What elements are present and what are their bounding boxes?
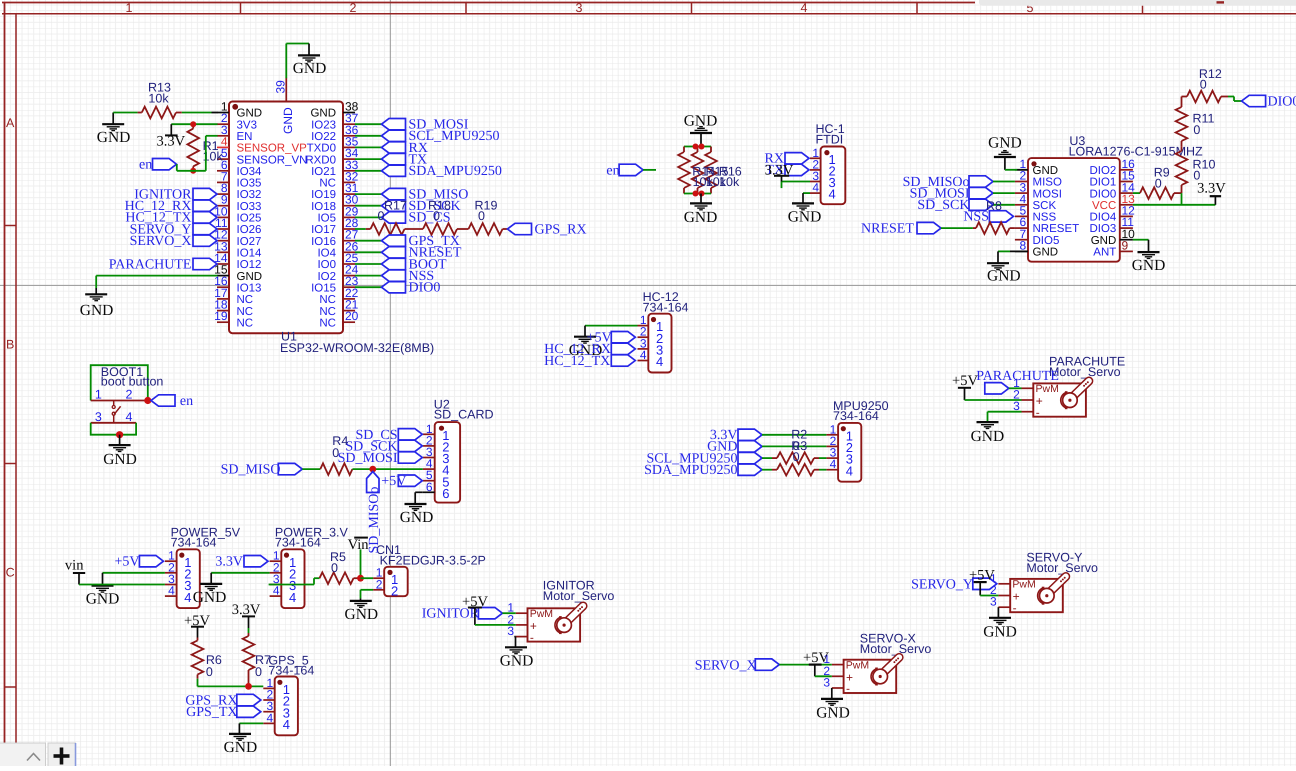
SERVO-X servo arm [881, 657, 899, 675]
U1 pin 24 (IO2) stub [343, 275, 355, 277]
svg-text:4: 4 [125, 410, 132, 424]
CN1 pin1 marker [387, 570, 392, 575]
svg-text:IO19: IO19 [311, 189, 336, 201]
U3 pin 1 (GND) stub [1015, 169, 1028, 171]
motor servo SERVO-Y body [1010, 579, 1063, 612]
svg-text:4: 4 [830, 457, 837, 471]
svg-text:MISO: MISO [1033, 177, 1062, 189]
U3 pin 15 (DIO1) stub [1120, 181, 1133, 183]
wire U3 pin8 to GND [998, 250, 1010, 252]
svg-text:DIO0: DIO0 [1268, 94, 1296, 109]
wire U1 right to SDA_MPU9250 [355, 170, 382, 172]
U1 pin 7 (IO35) stub [217, 181, 229, 183]
wire junction to CN1 pin1 [361, 577, 374, 579]
wire U1 right to SD_SCK [355, 205, 382, 207]
net flag SD_MISOo to U3 [969, 176, 993, 187]
motor servo SERVO-X body [844, 660, 897, 693]
wire R4 to U2 pin4 [352, 468, 422, 470]
junction dot R1 bottom [190, 168, 196, 174]
U1 pin 21 (NC) stub [343, 310, 355, 312]
wire PARACHUTE pin3 to GND [988, 411, 1022, 413]
bottom tab panel [0, 743, 46, 768]
U1 pin 30 (IO18) stub [343, 205, 355, 207]
wire SD_MOSI [993, 192, 1015, 194]
svg-text:GND: GND [816, 704, 850, 721]
U2 pin 3 stub [423, 457, 435, 459]
net flag PARACHUTE at U1 pin 14 [193, 258, 217, 269]
U2 pin 6 stub [423, 491, 435, 493]
wire GND to R13 [113, 112, 137, 114]
MPU9250 pin 3 stub [826, 457, 838, 459]
HC-1 pin1 marker [824, 150, 829, 155]
svg-text:GND: GND [293, 60, 327, 77]
POWER_5V pin 3 stub [165, 584, 177, 586]
svg-text:10k: 10k [148, 92, 169, 106]
net flag en at BOOT1 [151, 395, 175, 406]
ic U2 SD_CARD body [435, 422, 460, 503]
IGNITOR servo hub circle [557, 618, 572, 633]
svg-text:IO17: IO17 [311, 224, 336, 236]
svg-text:IO4: IO4 [317, 248, 336, 260]
SERVO-X pin 3 stub [832, 687, 844, 689]
svg-text:LORA1276-C1-915MHZ: LORA1276-C1-915MHZ [1069, 144, 1203, 158]
ground at HC-1 pin4 [803, 192, 810, 194]
wire MPU9250 pin2 [762, 445, 826, 447]
PARACHUTE servo arm dots [1087, 381, 1089, 383]
net flag NRESET [917, 222, 941, 233]
svg-text:39: 39 [274, 80, 288, 94]
U1 pin 17 (NC) stub [217, 298, 229, 300]
svg-text:NC: NC [319, 178, 336, 190]
POWER_3.V pin 1 stub [270, 560, 282, 562]
svg-text:19: 19 [214, 309, 228, 323]
svg-text:GND: GND [80, 302, 114, 319]
U1 pin 8 (IO32) stub [217, 193, 229, 195]
resistor R5 [320, 572, 354, 584]
net flag RX to HC-1 [785, 153, 809, 164]
svg-text:SCK: SCK [1033, 200, 1057, 212]
HC-1 pin 1 stub [810, 157, 821, 159]
wire POWER_3.V pin2 to GND [211, 572, 269, 574]
svg-text:SENSOR_VP: SENSOR_VP [237, 143, 308, 155]
wire SERVO-X pin3 to GND [831, 688, 833, 699]
U1 pin 9 (IO33) stub [217, 205, 229, 207]
net flag +5V to POWER_5V pin1 [139, 556, 163, 567]
junction dot R7 bottom [245, 683, 252, 690]
MPU9250 pin 2 stub [826, 445, 838, 447]
U1 pin 39 (GND) stub [285, 78, 287, 102]
U3 pin 7 (DIO5) stub [1015, 239, 1028, 241]
wire R9/R10 node to VCC rail [1181, 193, 1183, 205]
net flag BOOT [382, 258, 406, 269]
svg-text:4: 4 [289, 590, 296, 605]
net flag SD_CS to U2 pin 1 [398, 429, 422, 440]
svg-text:GND: GND [684, 209, 718, 226]
SERVO-Y pin 3 stub [998, 606, 1010, 608]
U2 pin 5 stub [423, 480, 435, 482]
wire U3 pin14 to R9 [1133, 192, 1140, 194]
svg-text:GND: GND [103, 451, 137, 468]
svg-text:DIO5: DIO5 [1033, 235, 1060, 247]
svg-text:NC: NC [237, 306, 254, 318]
svg-text:GND: GND [345, 606, 379, 623]
U1 pin 12 (IO27) stub [217, 240, 229, 242]
svg-text:C: C [6, 566, 15, 580]
wire flag to PARACHUTE pin1 [1009, 387, 1022, 389]
resistor R13 10k [138, 112, 142, 114]
svg-text:GND: GND [97, 129, 131, 146]
SERVO-Y pin 2 stub [998, 595, 1010, 597]
ground symbol at SERVO-Y [989, 617, 1011, 619]
svg-text:6: 6 [426, 480, 433, 494]
svg-text:4: 4 [283, 717, 290, 732]
connector MPU9250 body [838, 423, 861, 482]
wire U1 right to SD_MISO [355, 193, 382, 195]
U1 pin 11 (IO26) stub [217, 228, 229, 230]
wire HC-12 pin1 to GND [585, 325, 638, 327]
svg-text:4: 4 [640, 348, 647, 362]
motor servo PARACHUTE body [1033, 383, 1086, 416]
net flag HC_12_TX at U1 pin 10 [193, 212, 217, 223]
ground symbol below R14 network [700, 194, 702, 204]
svg-text:+5V: +5V [803, 650, 829, 666]
junction dots top rail [693, 144, 699, 150]
svg-text:FTDI: FTDI [816, 132, 844, 146]
U3 pin 5 (NSS) stub [1015, 215, 1028, 217]
U2 pin 2 stub [423, 445, 435, 447]
U3 pin1 marker [1031, 161, 1036, 166]
IGNITOR rotation arc [555, 617, 560, 633]
net flag IGNITOR at U1 pin 8 [193, 188, 217, 199]
wire POWER_3.V pin3 to R5 [269, 584, 314, 586]
svg-text:IO35: IO35 [237, 178, 262, 190]
svg-text:3.3V: 3.3V [215, 555, 243, 570]
PARACHUTE pin 3 stub [1022, 411, 1034, 413]
top ruler section ticks [240, 3, 242, 14]
svg-text:PARACHUTE: PARACHUTE [109, 257, 192, 272]
POWER_3.V pin 2 stub [270, 572, 282, 574]
wire bottom rail R14-R16 [684, 193, 711, 195]
svg-text:en: en [139, 158, 152, 173]
GPS_5 pin 2 stub [263, 699, 274, 701]
svg-text:NC: NC [237, 317, 254, 329]
net flag SCL_MPU9250 [382, 130, 406, 141]
U3 pin 14 (DIO0) stub [1120, 192, 1133, 194]
IGNITOR servo arm dots [581, 606, 583, 608]
GPS_5 pin 4 stub [263, 722, 274, 724]
svg-text:B: B [6, 338, 14, 352]
SERVO-Y rotation arc [1038, 588, 1043, 604]
svg-text:734-164: 734-164 [833, 409, 879, 423]
net flag HC_12_RX to HC-12 pin3 [611, 343, 635, 354]
svg-text:SD_MISOo: SD_MISOo [367, 487, 382, 554]
svg-text:R8: R8 [986, 199, 1002, 213]
wire U1 pin28 to R17 [355, 228, 366, 230]
svg-text:DIO4: DIO4 [1089, 212, 1116, 224]
wire +5V to PARACHUTE pin2 [965, 399, 1022, 401]
net flag HC_12_RX at U1 pin 9 [193, 200, 217, 211]
svg-text:3.3V: 3.3V [156, 134, 185, 150]
svg-text:SD_CARD: SD_CARD [434, 408, 494, 422]
svg-text:2: 2 [125, 388, 132, 402]
svg-text:GPS_RX: GPS_RX [535, 222, 587, 237]
svg-text:IO5: IO5 [317, 213, 336, 225]
switch BOOT1 wiring loop [91, 365, 148, 400]
net flag 3.3V to MPU9250 pin 1 [738, 429, 762, 440]
net flag SD_CS [382, 212, 406, 223]
wire U2 pin6 to GND [415, 491, 423, 493]
svg-text:0: 0 [478, 209, 485, 223]
svg-text:0: 0 [332, 446, 339, 460]
sheet frame inner border [2, 13, 1296, 15]
svg-text:4: 4 [267, 711, 274, 725]
net flag SDA_MPU9250 [382, 165, 406, 176]
IGNITOR pin 2 stub [516, 624, 528, 626]
svg-text:SDA_MPU9250: SDA_MPU9250 [409, 164, 502, 179]
svg-text:1: 1 [126, 1, 133, 15]
ground symbol at U1 pin39 [308, 44, 310, 56]
motor servo IGNITOR body [528, 608, 581, 641]
svg-text:GND: GND [224, 739, 258, 756]
net flag SD_SCK [382, 200, 406, 211]
GPS_5 pin 3 stub [263, 711, 274, 713]
svg-text:GND: GND [310, 108, 336, 120]
svg-text:en: en [180, 394, 193, 409]
resistor R10 vertical [1181, 185, 1183, 193]
wire U1 right to RX [355, 146, 382, 148]
wire U1 right to DIO0 [355, 286, 382, 288]
wire U3 VCC to 3.3V [1133, 204, 1216, 206]
svg-text:DIO1: DIO1 [1089, 177, 1116, 189]
svg-text:IO26: IO26 [237, 224, 262, 236]
wire U1 right to NRESET [355, 251, 382, 253]
svg-text:0: 0 [206, 665, 213, 679]
U1 pin 35 (TXD0) stub [343, 146, 355, 148]
ground symbol at PARACHUTE [977, 421, 999, 423]
U1 pin 4 (SENSOR_VP) stub [217, 146, 229, 148]
junction dot Vin/R5 [357, 575, 364, 582]
svg-text:en: en [606, 163, 619, 178]
svg-text:GND: GND [1033, 165, 1059, 177]
svg-text:Motor_Servo: Motor_Servo [543, 589, 615, 603]
svg-text:VCC: VCC [1092, 200, 1116, 212]
wire from en flag [643, 169, 656, 171]
IGNITOR pin 1 stub [516, 612, 528, 614]
wire +5V to IGNITOR pin2 [475, 624, 516, 626]
wire SD_MISOo [993, 181, 1015, 183]
PARACHUTE servo arm [1071, 381, 1089, 399]
svg-text:NC: NC [319, 306, 336, 318]
svg-text:GND: GND [500, 653, 534, 670]
SERVO-X servo hub circle [873, 669, 888, 684]
svg-text:IO15: IO15 [311, 282, 336, 294]
resistor R14 vertical [683, 147, 685, 153]
svg-text:4: 4 [168, 584, 175, 598]
svg-text:DIO2: DIO2 [1089, 165, 1116, 177]
svg-text:0: 0 [433, 209, 440, 223]
net flag +5V to U2 pin5 [398, 475, 422, 486]
connector POWER_3.V body [281, 549, 304, 608]
resistor R8 [976, 222, 1010, 234]
net flag TX [382, 153, 406, 164]
U1 pin 14 (IO12) stub [217, 263, 229, 265]
svg-text:GND: GND [400, 509, 434, 526]
power flag 3.3V at HC-1 pin3 [782, 181, 811, 183]
svg-text:boot button: boot button [101, 375, 164, 389]
net flag SD_MOSI [382, 119, 406, 130]
svg-text:SENSOR_VN: SENSOR_VN [237, 154, 308, 166]
wire SD_MISO to R4 [302, 468, 320, 470]
svg-text:2: 2 [391, 583, 398, 598]
svg-text:6: 6 [442, 486, 449, 501]
svg-text:GND: GND [1033, 247, 1059, 259]
net flag SCL_MPU9250 to MPU9250 pin 3 [738, 452, 762, 463]
wire Vin down to junction [360, 549, 362, 578]
svg-text:NSS: NSS [1033, 212, 1057, 224]
net flag SD_MISOo vertical [367, 472, 379, 493]
U1 pin 1 marker dot [232, 104, 238, 110]
MPU9250 pin 1 stub [826, 434, 838, 436]
svg-text:GND: GND [788, 208, 822, 225]
svg-text:3: 3 [95, 410, 102, 424]
ground symbol at CN1 [360, 598, 362, 600]
U1 pin 32 (NC) stub [343, 181, 355, 183]
connector POWER_5V body [177, 549, 200, 608]
svg-text:+5V: +5V [381, 474, 406, 489]
svg-text:GND: GND [987, 268, 1021, 285]
net flag SD_MOSI to U2 pin 3 [398, 452, 422, 463]
svg-text:3: 3 [507, 624, 514, 638]
net flag NSS to U3 pin5 [989, 211, 1013, 222]
ground symbol at SERVO-X [821, 698, 843, 700]
svg-text:IO23: IO23 [311, 119, 336, 131]
HC-12 pin 1 stub [638, 325, 649, 327]
resistor R9 [1140, 187, 1174, 199]
U1 pin 37 (IO23) stub [343, 123, 355, 125]
U3 pin 12 (DIO4) stub [1120, 215, 1133, 217]
U1 pin 27 (IO16) stub [343, 240, 355, 242]
resistor on SDA line [762, 469, 772, 471]
junction dot SD_MISOo [369, 466, 376, 473]
svg-text:NC: NC [319, 317, 336, 329]
junction dot R1 top [190, 121, 196, 127]
svg-text:IO16: IO16 [311, 236, 336, 248]
svg-text:GND: GND [1132, 257, 1166, 274]
svg-text:IO14: IO14 [237, 248, 263, 260]
net flag SERVO_Y at U1 pin 11 [193, 223, 217, 234]
U1 pin 26 (IO4) stub [343, 251, 355, 253]
ic U3 LORA1276 body [1028, 158, 1120, 262]
wire R13 to U1 pin1 [182, 112, 212, 114]
U1 pin 34 (RXD0) stub [343, 158, 355, 160]
ground symbol at POWER_5V [102, 573, 104, 586]
svg-text:Motor_Servo: Motor_Servo [1026, 561, 1098, 575]
top-right panel red dash [1217, 1, 1225, 3]
BOOT1 bottom wiring loop [91, 423, 136, 435]
svg-text:IO18: IO18 [311, 201, 336, 213]
POWER_5V pin 1 stub [165, 560, 177, 562]
junction dots bottom rail [693, 191, 699, 197]
net flag en (floating) [619, 164, 643, 175]
U3 pin 9 (ANT) stub [1120, 250, 1133, 252]
svg-text:IO0: IO0 [317, 259, 336, 271]
PARACHUTE pin 2 stub [1022, 399, 1034, 401]
svg-text:GND: GND [237, 108, 263, 120]
HC-1 pin 4 stub [810, 192, 821, 194]
net flag NRESET [382, 247, 406, 258]
power flag 3.3V at U1 pin2 [170, 124, 172, 135]
ground symbol at U3 pin8 [997, 251, 999, 263]
svg-text:10k: 10k [719, 175, 740, 189]
svg-text:8: 8 [1020, 239, 1027, 253]
POWER_3.V pin 3 stub [270, 584, 282, 586]
svg-text:SERVO_Y: SERVO_Y [911, 577, 973, 592]
POWER_5V pin 4 stub [165, 595, 177, 597]
U1 pin 22 (NC) stub [343, 298, 355, 300]
top-right collapsed panel strip [979, 0, 1296, 6]
resistor R6 [197, 638, 199, 641]
svg-text:GND: GND [983, 624, 1017, 641]
wire U1 right to GPS_TX [355, 240, 382, 242]
svg-text:IO34: IO34 [237, 166, 263, 178]
resistor R7 [248, 633, 250, 636]
resistor R18 [405, 228, 424, 230]
svg-text:GND: GND [971, 428, 1005, 445]
net flag DIO0 [382, 282, 406, 293]
resistor R1 10k vertical [192, 124, 194, 128]
U2 pin1 marker [439, 426, 444, 431]
resistor on SCL line [762, 457, 772, 459]
net flag en near U1 [153, 159, 177, 170]
origin axis horizontal line [0, 284, 1296, 286]
svg-text:NC: NC [319, 294, 336, 306]
bottom add-sheet tab with plus [48, 743, 76, 768]
svg-text:MOSI: MOSI [1033, 188, 1062, 200]
SERVO-X pin 1 stub [832, 664, 844, 666]
wire U1 right to SCL_MPU9250 [355, 135, 382, 137]
ground symbol at POWER_3.V [210, 573, 212, 584]
svg-text:0: 0 [1200, 78, 1207, 92]
svg-text:vin: vin [65, 558, 84, 574]
SERVO-X pin 2 stub [832, 675, 844, 677]
U1 pin 29 (IO5) stub [343, 216, 355, 218]
wire CN1 pin2 to GND [361, 589, 374, 591]
HC-12 pin 4 stub [638, 360, 649, 362]
U3 pin 8 (GND) stub [1015, 250, 1028, 252]
svg-text:IO25: IO25 [237, 213, 262, 225]
U3 pin 11 (DIO3) stub [1120, 227, 1133, 229]
net flag TX to HC-1 [785, 164, 809, 175]
U1 pin 1 (GND) stub [217, 112, 229, 114]
U1 pin 5 (SENSOR_VN) stub [217, 158, 229, 160]
U1 pin 28 (IO17) stub [343, 228, 355, 230]
net flag HC_12_TX to HC-12 pin4 [611, 355, 635, 366]
svg-text:3: 3 [823, 676, 830, 690]
ground symbol at U3 pin10 [1148, 240, 1150, 252]
resistor R12 [1187, 91, 1221, 103]
wire U1 right to TX [355, 158, 382, 160]
U1 pin 16 (IO13) stub [217, 286, 229, 288]
svg-text:IO13: IO13 [237, 282, 262, 294]
ground symbol at HC-12 pin1 [584, 326, 586, 337]
svg-text:R17: R17 [384, 198, 407, 212]
svg-text:NC: NC [237, 294, 254, 306]
svg-text:IO12: IO12 [237, 259, 262, 271]
U1 pin 33 (IO21) stub [343, 170, 355, 172]
U1 pin 23 (IO15) stub [343, 286, 355, 288]
U1 pin 38 (GND) stub [343, 112, 355, 114]
ground symbol left of R13 [112, 113, 114, 125]
